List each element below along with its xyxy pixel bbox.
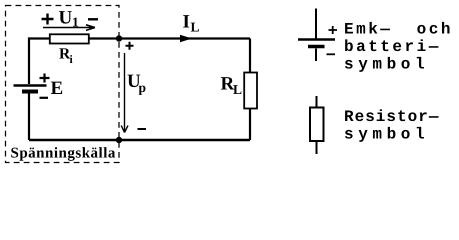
- wire top from Ri to right corner: [90, 37, 251, 39]
- svg-text:symbol: symbol: [344, 56, 429, 74]
- wire bottom: [29, 139, 250, 142]
- svg-text:p: p: [139, 80, 147, 95]
- wire top-left segment: [29, 39, 49, 85]
- Up arrow (down): [121, 53, 128, 133]
- battery E minus sign: [40, 97, 49, 99]
- legend battery minus: [327, 53, 336, 55]
- node dot top (junction): [116, 35, 122, 41]
- svg-text:I: I: [183, 12, 190, 33]
- dashed box (Spänningskälla enclosure): [6, 6, 120, 163]
- svg-text:E: E: [51, 78, 64, 99]
- svg-text:symbol: symbol: [344, 126, 429, 144]
- svg-text:Resistor—: Resistor—: [344, 108, 439, 126]
- wire right vertical bottom: [249, 109, 251, 140]
- Up plus sign: [126, 42, 134, 50]
- svg-text:batteri—: batteri—: [344, 38, 441, 56]
- battery E plus sign: [40, 74, 50, 83]
- current arrow IL (filled head): [180, 35, 192, 42]
- svg-text:Emk— och: Emk— och: [344, 21, 453, 39]
- svg-text:L: L: [191, 20, 200, 35]
- resistor RL: [244, 73, 257, 109]
- wire right vertical top: [249, 39, 251, 73]
- svg-text:i: i: [70, 54, 74, 66]
- resistor Ri: [50, 34, 89, 43]
- minus sign U1: [88, 18, 98, 20]
- legend resistor bottom wire: [316, 141, 318, 154]
- svg-text:U: U: [59, 8, 73, 29]
- battery E long plate: [14, 84, 47, 87]
- arrow under U1: [43, 25, 95, 31]
- svg-text:L: L: [233, 82, 242, 97]
- legend resistor rect: [310, 108, 324, 142]
- Up minus sign: [138, 128, 147, 130]
- legend battery plus: [329, 26, 338, 34]
- svg-text:Spänningskälla: Spänningskälla: [11, 146, 116, 162]
- legend battery: top wire: [315, 9, 317, 39]
- battery E short plate: [22, 90, 38, 94]
- legend battery short plate: [308, 45, 325, 49]
- plus sign U1: [42, 14, 54, 25]
- legend resistor: top wire: [316, 96, 318, 108]
- legend battery bottom wire: [315, 49, 317, 62]
- node dot bottom (junction): [116, 137, 122, 143]
- legend battery long plate: [298, 38, 335, 40]
- wire battery to bottom: [28, 94, 30, 141]
